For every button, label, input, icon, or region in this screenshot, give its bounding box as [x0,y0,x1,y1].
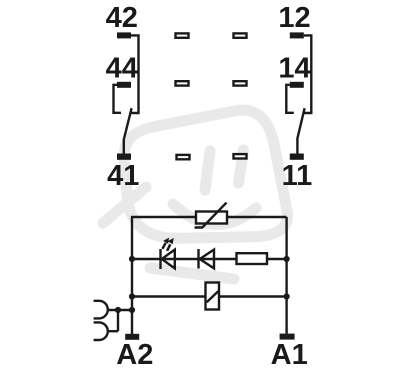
wire 44 hook (NO contact) [114,85,122,113]
junction dot row2 right [284,256,290,262]
svg-text:A1: A1 [271,339,308,371]
watermark glyph stroke bottom [150,268,234,279]
watermark logo [103,110,287,279]
pad row2 col2 [234,81,247,85]
left contact group [114,32,139,159]
wire plug link vertical [117,310,119,331]
wire 14 hook (NO contact) [286,85,294,113]
LED light arrows [163,238,174,245]
armature 11 [297,108,304,153]
LED arrow shaft 1 [162,243,165,249]
pad row1 col1 [176,33,189,37]
wire row2 right [267,258,287,260]
pad row1 col2 [234,33,247,37]
varistor body [196,212,227,224]
terminal 11 [290,154,304,160]
wire plug link top [107,309,132,311]
LED cathode bar [159,249,161,269]
pad row3 col1 [177,155,190,159]
junction dot plug mid [115,307,121,313]
terminal 14 [290,82,304,88]
varistor strike [195,203,227,228]
wire row3 right [219,295,287,297]
LED triangle [162,250,175,269]
diode triangle [200,250,214,269]
junction dot row3 left [129,293,135,299]
pad row3 col2 [234,154,247,158]
junction dot plug rail [129,307,135,313]
watermark glyph bar left [205,151,210,190]
wire 12 to NC contact [304,35,312,113]
wire top rail right [227,216,287,218]
plug contact arc top [94,301,108,319]
watermark rounded square [124,110,287,238]
plug contact arc bottom [94,322,108,340]
resistor body [237,253,268,264]
terminal A1 [280,334,295,340]
watermark glyph bar right [239,150,244,183]
terminal 12 [290,32,304,38]
svg-text:12: 12 [278,2,310,34]
right contact group [286,32,311,159]
terminal 42 [117,32,131,38]
relay coil diagonal [207,291,219,302]
LED arrow head 2 [168,238,174,244]
LED arrow shaft 2 [167,244,170,251]
svg-text:A2: A2 [116,339,153,371]
junction dot row3 right [284,293,290,299]
armature 41 [124,108,132,153]
watermark glyph stroke lower-left [103,187,146,223]
junction dot row2 left [129,256,135,262]
diode cathode bar [197,249,199,269]
svg-text:42: 42 [106,2,138,34]
terminal A2 [125,334,139,340]
middle socket pads (6 small rects) [176,33,247,159]
watermark glyph curve [173,204,256,225]
wire right rail [285,217,287,334]
wire left rail [131,217,133,334]
wire row2 left [132,258,237,260]
pad row2 col1 [176,81,189,85]
terminal 44 [117,82,131,88]
relay coil body [206,283,220,310]
wire row3 left [132,295,206,297]
LED arrow head 1 [163,238,169,244]
svg-text:11: 11 [282,160,313,192]
wire top rail left [131,216,196,218]
svg-text:44: 44 [106,52,138,84]
wire plug link bottom [107,330,118,332]
wire 42 to NC contact [131,35,139,113]
terminal 41 [117,154,131,160]
svg-text:14: 14 [278,52,310,84]
coil circuit [94,203,287,340]
svg-text:41: 41 [107,160,139,192]
